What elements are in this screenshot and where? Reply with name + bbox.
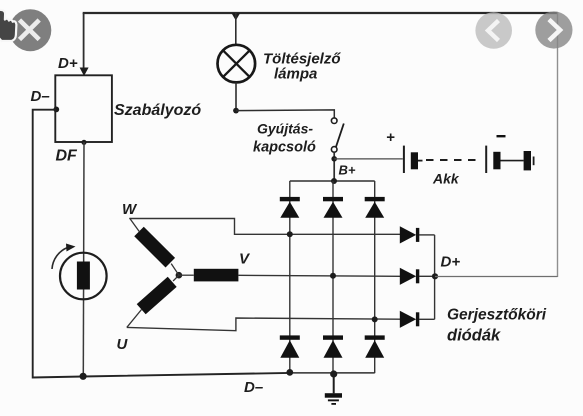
charge lamp circle xyxy=(218,45,256,83)
diode D9 excitation bottom xyxy=(400,311,435,328)
winding W stator xyxy=(139,232,170,263)
wire D- left vertical and bottom bus xyxy=(33,110,290,378)
nav arrow right circle xyxy=(535,11,572,48)
wire switch to bridge B+ xyxy=(333,152,335,181)
close button X xyxy=(20,20,40,40)
wire W lead xyxy=(130,218,140,232)
battery tick xyxy=(418,160,423,162)
wire bridge column 1 xyxy=(289,181,291,373)
wire lamp junction to switch xyxy=(236,110,334,118)
wire right vertical from top bus to D+ line xyxy=(557,12,559,277)
svg-text:DF: DF xyxy=(56,148,79,165)
wire U lead xyxy=(127,310,142,328)
wire from top bus down to regulator xyxy=(83,13,85,69)
nav arrow left chevron xyxy=(488,21,499,41)
wire to battery plus xyxy=(334,158,403,160)
winding U stator xyxy=(141,282,172,309)
svg-text:lámpa: lámpa xyxy=(274,66,317,83)
battery plate thick negative xyxy=(493,152,500,170)
wire battery negative to chassis xyxy=(501,160,524,162)
diode D1 top col1 xyxy=(280,197,300,218)
lamp X stroke 1 xyxy=(223,51,249,77)
node W col1 xyxy=(287,231,293,237)
wire top bus D+ xyxy=(83,12,558,14)
winding V stator xyxy=(194,269,239,282)
svg-text:Szabályozó: Szabályozó xyxy=(114,102,201,119)
label minus battery xyxy=(497,135,506,137)
wire bridge column 3 xyxy=(374,181,376,373)
node B+ on bridge bus xyxy=(331,178,337,184)
wire to ground xyxy=(333,374,335,393)
node battery tap xyxy=(331,156,337,162)
wire D+ output to right xyxy=(435,276,558,278)
battery plate long positive xyxy=(403,146,405,173)
wire dashed battery cells xyxy=(426,159,479,161)
diode D2 top col2 xyxy=(323,197,343,218)
wire excitation vertical xyxy=(434,235,436,319)
wire lamp bottom xyxy=(235,83,237,111)
arrowhead lamp tap on top bus xyxy=(231,13,240,21)
node D- on regulator xyxy=(53,107,59,113)
switch lever xyxy=(336,124,344,147)
diode D4 bottom col1 xyxy=(280,335,300,357)
switch bottom contact xyxy=(331,147,337,153)
chassis bar thick xyxy=(524,151,531,170)
lamp X stroke 2 xyxy=(223,51,249,77)
rotation arrow xyxy=(52,248,68,270)
node bottom bus col1 xyxy=(286,369,293,376)
svg-text:diódák: diódák xyxy=(447,327,501,345)
svg-text:D–: D– xyxy=(31,88,50,105)
wire star to W winding xyxy=(171,264,179,276)
svg-text:D–: D– xyxy=(244,379,263,396)
svg-text:B+: B+ xyxy=(339,163,356,178)
diode D3 top col3 xyxy=(365,197,385,218)
svg-text:U: U xyxy=(117,336,129,353)
generator rotor circle G1 xyxy=(60,253,107,300)
diode D8 excitation middle xyxy=(400,268,435,285)
svg-text:Gyújtás-: Gyújtás- xyxy=(257,121,313,137)
regulator box U1 xyxy=(55,75,112,142)
wire star to V winding xyxy=(179,274,194,276)
chassis small line xyxy=(533,157,535,166)
svg-text:Akk: Akk xyxy=(432,171,460,187)
svg-text:Gerjesztőköri: Gerjesztőköri xyxy=(447,307,547,324)
node lamp junction xyxy=(233,108,239,114)
ground symbol xyxy=(325,393,342,405)
node DF on regulator bottom xyxy=(81,140,86,145)
node ground tap col2 xyxy=(330,370,337,377)
diode D6 bottom col3 xyxy=(365,335,385,357)
wire bridge column 2 xyxy=(332,181,334,374)
wire bridge top bus xyxy=(290,180,375,182)
node generator to D- bus xyxy=(80,373,87,380)
wire star to U winding xyxy=(173,275,179,281)
hand cursor icon xyxy=(0,10,16,42)
node U col3 xyxy=(372,316,378,322)
diode D5 bottom col2 xyxy=(323,335,343,357)
svg-text:W: W xyxy=(122,201,138,218)
nav arrow right chevron xyxy=(549,20,560,41)
svg-text:D+: D+ xyxy=(441,254,461,271)
node D+ output xyxy=(432,273,438,279)
close button circle xyxy=(9,9,51,51)
svg-text:D+: D+ xyxy=(58,55,78,72)
battery plate long negative xyxy=(485,146,487,173)
svg-text:+: + xyxy=(386,129,395,146)
arrowhead into regulator top xyxy=(80,68,89,77)
svg-text:kapcsoló: kapcsoló xyxy=(253,140,316,156)
node stator star point xyxy=(176,272,183,279)
wire DF to generator to bottom bus xyxy=(82,142,85,376)
wire top bus to lamp xyxy=(235,13,237,45)
battery plate thick positive xyxy=(411,152,418,169)
nav arrow left circle xyxy=(475,12,512,49)
wire phase V xyxy=(239,275,401,276)
wire phase U xyxy=(127,318,400,331)
wire phase W xyxy=(130,219,401,235)
wire bridge bottom bus xyxy=(290,372,375,374)
field winding bar inside generator xyxy=(77,262,90,290)
diode D7 excitation top xyxy=(400,226,435,243)
node V col2 xyxy=(330,273,336,279)
switch top contact xyxy=(331,118,337,124)
